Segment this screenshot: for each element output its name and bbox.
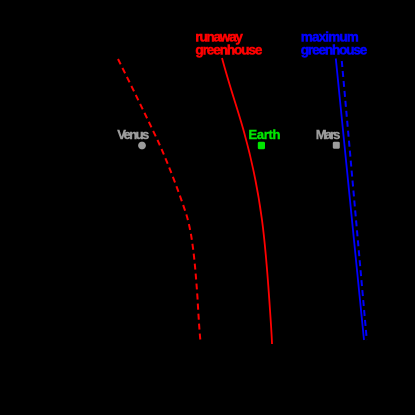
svg-text:Venus: Venus	[117, 127, 149, 142]
svg-text:Earth: Earth	[249, 127, 281, 142]
svg-text:Mars: Mars	[316, 127, 341, 142]
curve: maximum greenhouse solid blue	[336, 59, 364, 341]
svg-text:greenhouse: greenhouse	[301, 42, 368, 57]
svg-text:greenhouse: greenhouse	[195, 42, 262, 57]
curve: outer HZ dashed blue	[342, 61, 367, 340]
curve: inner HZ dashed red (Venus side)	[118, 59, 201, 342]
curve: runaway greenhouse solid red	[222, 58, 272, 344]
